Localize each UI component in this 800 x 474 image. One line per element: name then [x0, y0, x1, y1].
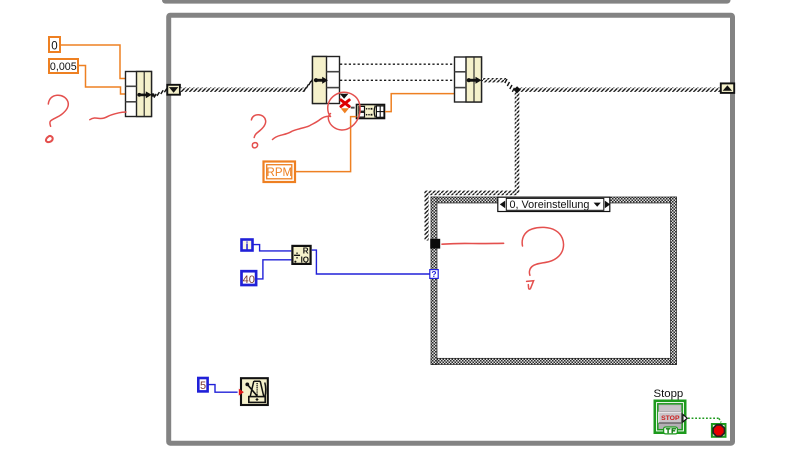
orange wire node to bundle2 — [385, 94, 454, 112]
broken wire: black arrow — [340, 94, 349, 99]
case structure top border — [431, 197, 677, 203]
outer structure edge (top) — [162, 0, 731, 4]
red scribble: underline near bundle1 — [90, 112, 126, 120]
svg-text:0, Voreinstellung: 0, Voreinstellung — [510, 199, 590, 211]
case structure right border — [671, 197, 677, 365]
index & bundle cluster array node — [357, 105, 385, 119]
red scribble: middle question mark — [251, 115, 265, 138]
wire 40 to QR — [257, 260, 291, 279]
cluster wire SR-left to unbundle — [181, 88, 305, 92]
cluster wire branch down to case — [515, 92, 520, 193]
bundle node 2 — [455, 57, 482, 102]
wire RPM to node — [296, 117, 357, 172]
case structure bottom border — [431, 358, 677, 364]
svg-text:40: 40 — [243, 274, 255, 286]
unbundle node — [313, 57, 340, 104]
svg-text:i: i — [245, 241, 248, 253]
shift register left — [167, 85, 180, 95]
case selector label — [498, 197, 610, 211]
boolean dotted wire row2 — [340, 79, 454, 81]
bundle1 output nub — [151, 93, 154, 96]
wait until next ms multiple node — [241, 378, 268, 405]
iteration terminal i — [242, 240, 253, 253]
red scribble: circle around broken wire — [328, 92, 360, 130]
red scribble: left question mark — [48, 95, 68, 126]
wire 5 to wait node — [209, 385, 238, 393]
red scribble: squiggle to circle — [273, 116, 330, 139]
svg-text:IQ: IQ — [301, 256, 309, 265]
red line from tunnel — [442, 242, 504, 245]
RPM indicator terminal — [264, 162, 296, 183]
red scribble: left question mark dot — [46, 136, 53, 142]
cluster wire bundle1 to left shift register — [154, 89, 167, 98]
wire i to QR — [253, 245, 291, 251]
red scribble: middle question mark dot — [252, 143, 257, 148]
wire QR to case — [312, 250, 430, 274]
wire 0 to bundle — [61, 45, 125, 79]
svg-text:?: ? — [431, 269, 436, 279]
numeric constant 5 — [198, 378, 207, 392]
case structure left border — [431, 197, 437, 365]
svg-text:Stopp: Stopp — [654, 388, 684, 400]
svg-text:RPM: RPM — [267, 167, 293, 179]
quotient & remainder node — [292, 246, 310, 265]
numeric constant 40 — [242, 271, 257, 286]
wire 0,005 to bundle — [79, 66, 125, 95]
bundle node 1 — [126, 72, 152, 117]
wire junction — [513, 86, 520, 93]
numeric constant 0,005 — [49, 59, 78, 73]
red feed arrow — [239, 389, 244, 396]
while loop border — [169, 15, 733, 443]
svg-text:R: R — [303, 246, 309, 255]
red scribble: big question mark in case — [522, 227, 563, 275]
boolean dotted wire row1 — [340, 63, 454, 65]
case tunnel (black square) — [430, 239, 440, 249]
numeric constant 0 — [49, 37, 60, 53]
boolean wire Stopp to condition — [688, 417, 719, 419]
Stopp boolean terminal — [655, 401, 688, 434]
void tunnel ? — [430, 269, 438, 279]
loop condition terminal — [712, 424, 726, 437]
cluster wire bundle2 to right shift register — [482, 78, 506, 82]
broken wire: red X — [341, 100, 349, 106]
red scribble: big question mark dot — [527, 281, 534, 289]
svg-text:0: 0 — [51, 41, 57, 53]
shift register right — [721, 83, 734, 93]
broken wire: orange arrow — [341, 108, 349, 113]
svg-text:0,005: 0,005 — [50, 61, 77, 73]
svg-text:STOP: STOP — [661, 415, 680, 422]
svg-text:5: 5 — [200, 380, 206, 392]
broken wire stub dash — [351, 107, 355, 109]
